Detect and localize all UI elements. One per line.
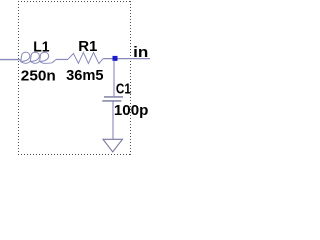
- node junction (blue square): [113, 56, 118, 61]
- resistor R1 zigzag: [68, 52, 103, 63]
- capacitor C1 top plate: [104, 96, 123, 98]
- wire capacitor to ground: [112, 102, 114, 140]
- svg-text:36m5: 36m5: [66, 67, 104, 84]
- wire L1 to R1: [56, 58, 68, 60]
- capacitor C1 bottom plate: [102, 100, 121, 102]
- wire R1 to node: [103, 58, 150, 60]
- wire: left lead into L1: [0, 59, 20, 61]
- svg-text:in: in: [133, 44, 148, 61]
- selection boundary dotted box: [18, 1, 131, 155]
- svg-text:L1: L1: [33, 38, 49, 55]
- wire node to capacitor: [113, 61, 115, 97]
- svg-text:100p: 100p: [114, 102, 148, 119]
- ground symbol: [103, 139, 122, 152]
- svg-text:R1: R1: [78, 38, 97, 55]
- inductor L1 loops: [19, 52, 56, 63]
- svg-text:250n: 250n: [21, 67, 56, 84]
- svg-text:C1: C1: [116, 81, 131, 98]
